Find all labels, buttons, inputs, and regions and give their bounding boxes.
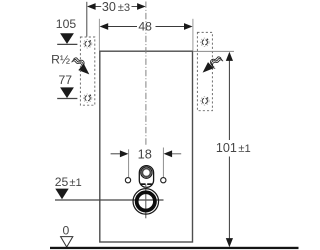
height marker 77 datum line	[57, 98, 77, 100]
flange stadium outline	[139, 166, 153, 188]
svg-text:105: 105	[56, 17, 77, 31]
dim 48 right arrow	[184, 23, 193, 30]
dim 101±1 lower line	[228, 157, 230, 240]
dim 101±1 down arrow	[226, 238, 233, 247]
dim 30±3 right leader	[132, 6, 138, 8]
dim 48 right leader	[156, 26, 185, 28]
dim 30±3 left arrow	[87, 3, 96, 10]
right connection point lower	[201, 97, 209, 105]
dim 30±3 left leader	[95, 6, 101, 8]
25 datum line / crosshair horizontal	[55, 199, 164, 201]
left connection point lower (77)	[83, 94, 91, 102]
fixing hole left	[125, 178, 130, 183]
svg-text:101±1: 101±1	[216, 141, 251, 155]
water flow icon right (mirrored)	[210, 56, 225, 68]
flange inlet outer ring	[141, 167, 152, 178]
flush bend base disc	[133, 188, 160, 215]
extension line panel left edge	[98, 19, 100, 51]
dim 30±3 right arrow	[137, 3, 146, 10]
extension line water supply axis	[86, 2, 88, 37]
sanitary module panel	[100, 51, 193, 242]
crosshair vertical	[145, 184, 147, 218]
dim 18 right arrow	[164, 150, 173, 157]
left connection zone dashed box	[80, 37, 94, 105]
dim 18 left arrow	[120, 150, 128, 157]
dim 48 left arrow	[100, 23, 109, 30]
water flow icon left	[70, 57, 85, 69]
extension line fixing right	[162, 148, 164, 178]
water flow arrow left	[78, 64, 89, 75]
right connection point upper	[201, 38, 209, 46]
left connection point upper (105)	[83, 40, 91, 48]
height marker 25 triangle	[55, 189, 68, 200]
flush bend annulus	[137, 192, 155, 210]
dim 18 right leader	[172, 153, 181, 155]
extension line panel top to 101 dim	[193, 50, 234, 52]
flange clamp mark left	[141, 183, 146, 185]
flange inlet inner ring	[142, 169, 150, 177]
dim 48 left leader	[108, 26, 137, 28]
svg-text:0: 0	[63, 223, 70, 237]
floor datum triangle	[61, 237, 73, 247]
flange clamp mark right	[147, 183, 152, 185]
dim 101±1 upper line	[228, 60, 230, 140]
flush bend outer circle	[133, 189, 159, 215]
dim 101±1 up arrow	[226, 52, 233, 61]
WC centerline (dash-dot)	[145, 2, 147, 146]
extension line panel right edge	[192, 19, 194, 51]
height marker 105 datum line	[57, 43, 77, 45]
svg-text:18: 18	[138, 147, 152, 162]
height marker 105 triangle	[60, 33, 74, 44]
water flow arrow right	[203, 62, 214, 73]
extension line fixing left	[128, 149, 130, 177]
svg-text:77: 77	[59, 73, 73, 87]
fixing hole right	[161, 178, 166, 183]
svg-text:R½: R½	[51, 52, 70, 66]
svg-text:48: 48	[138, 19, 152, 33]
svg-text:25±1: 25±1	[55, 175, 82, 189]
floor line	[50, 247, 299, 249]
height marker 77 triangle	[60, 87, 74, 98]
dim 18 left leader	[111, 153, 121, 155]
right connection zone dashed box	[197, 32, 212, 110]
